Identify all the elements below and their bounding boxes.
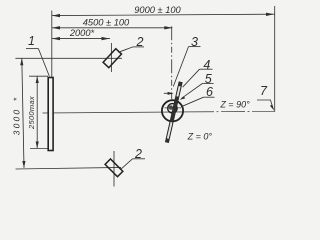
label 7 leader arrowhead (270, 105, 274, 111)
svg-text:2500max: 2500max (27, 96, 36, 130)
extension line mast top for 2500 (29, 75, 48, 77)
label 2 upper leader (118, 47, 133, 52)
label 6 leader (181, 97, 204, 107)
label 1 leader (38, 49, 49, 77)
dimension line 2500 vertical (36, 76, 38, 148)
dimension line 3000 vertical (22, 58, 24, 168)
main horizontal centerline (43, 112, 191, 113)
dimension line 9000 (52, 14, 275, 15)
label 5 leader (182, 83, 203, 98)
rotating dipole bar (166, 82, 183, 142)
label 2 upper underline (133, 46, 144, 48)
arrowheads dimension 4500 (52, 26, 60, 29)
dimension line 2000 (52, 38, 110, 40)
rotator crosshair (165, 107, 182, 109)
rotation arc arrow (164, 92, 170, 94)
extension line right end (274, 6, 276, 112)
top alignment line (15, 57, 122, 59)
label 2 lower underline (133, 158, 146, 160)
rotator inner circle (168, 104, 177, 113)
svg-text:9000 ± 100: 9000 ± 100 (134, 5, 181, 15)
mast tube (element 1) (48, 78, 53, 151)
label 6 underline (204, 96, 215, 98)
extension line mast bottom for 2500 (30, 148, 48, 150)
extension line rotator axis (dash-dot) (171, 26, 173, 99)
upper auxiliary antenna (element 2) (103, 49, 121, 68)
label 3 underline (189, 46, 201, 48)
rotator hub blob (169, 105, 173, 109)
svg-text:2000*: 2000* (69, 28, 95, 38)
svg-text:3000: 3000 (11, 108, 21, 136)
extension line upper antenna 2 (110, 43, 112, 72)
lower auxiliary antenna (element 2) (105, 159, 123, 177)
svg-text:7: 7 (260, 84, 268, 98)
label 4 underline (200, 68, 213, 70)
svg-text:4: 4 (203, 58, 210, 72)
dimension line 4500 (52, 27, 172, 29)
arrowheads dimension 2000 (52, 37, 60, 40)
label 4 leader (183, 69, 200, 87)
arrowheads dimension 3000 (20, 58, 23, 65)
label 7 leader (257, 100, 273, 109)
svg-text:Z = 90°: Z = 90° (219, 99, 250, 109)
extension line lower antenna 2 (113, 151, 115, 187)
svg-text:1: 1 (28, 34, 35, 48)
svg-text:4500 ± 100: 4500 ± 100 (83, 18, 130, 28)
label 5 underline (203, 82, 214, 84)
arrowheads dimension 2500 (36, 76, 39, 83)
label 1 underline (26, 48, 39, 50)
arrowheads dimension 9000 (20, 13, 274, 168)
extension line left mast (51, 11, 53, 78)
svg-text:5: 5 (205, 72, 212, 86)
ground line (16, 167, 122, 169)
label 3 leader (173, 47, 188, 87)
label 2 lower leader (121, 159, 133, 170)
rotator outer circle (162, 100, 183, 121)
centerline right dash-dot portion (190, 110, 275, 113)
svg-text:Z = 0°: Z = 0° (187, 131, 213, 141)
